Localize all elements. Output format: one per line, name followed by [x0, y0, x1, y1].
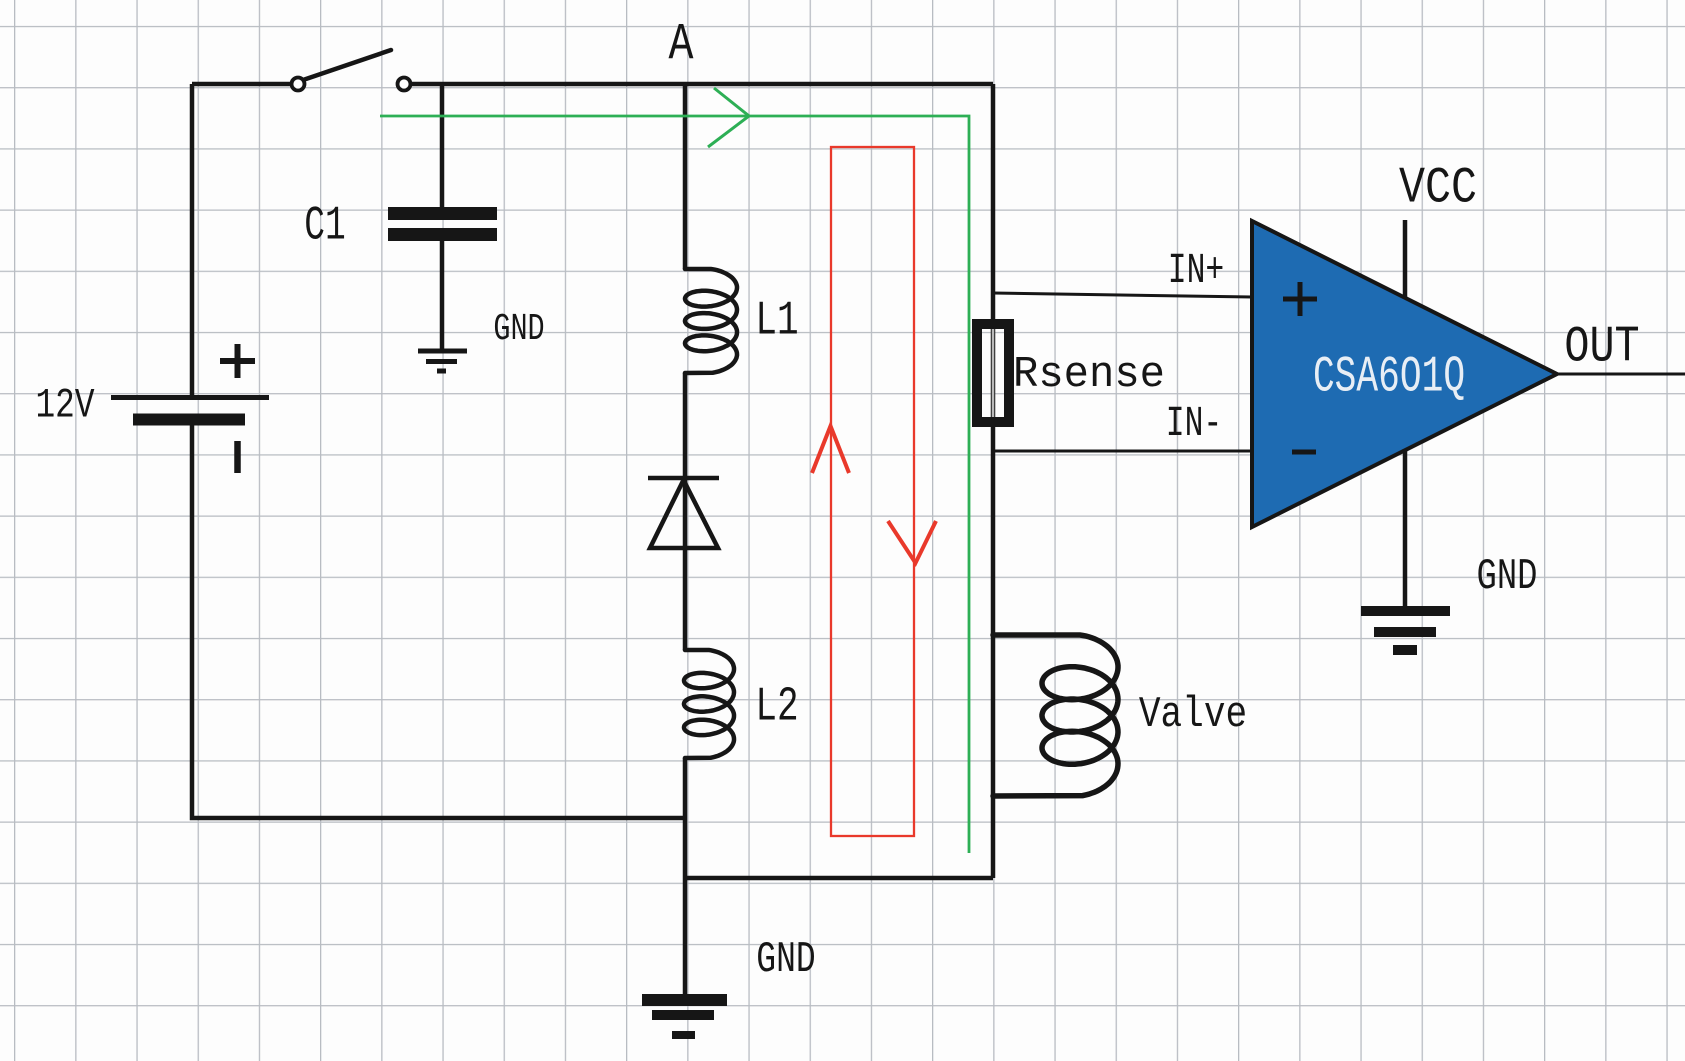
green current path	[380, 116, 969, 853]
svg-text:GND: GND	[493, 309, 544, 352]
wire: left rail (battery branch) down	[190, 84, 195, 395]
diode cathode bar	[648, 476, 719, 481]
svg-text:Valve: Valve	[1139, 691, 1247, 740]
svg-text:VCC: VCC	[1399, 161, 1477, 218]
svg-text:OUT: OUT	[1564, 319, 1639, 377]
wire: bottom rail to right branch	[685, 876, 993, 881]
capacitor C1 top plate	[388, 207, 497, 220]
switch contact right	[398, 78, 411, 91]
battery 12V negative plate	[133, 414, 245, 426]
wire: L2 bottom down to ground	[683, 758, 688, 994]
wire IN+	[993, 293, 1252, 297]
inductor L2	[684, 650, 734, 758]
red arrow up (left edge)	[812, 426, 849, 473]
svg-text:IN+: IN+	[1168, 248, 1224, 296]
wire: C1 bottom to ground	[440, 240, 445, 349]
battery 12V positive plate	[111, 395, 269, 400]
svg-text:12V: 12V	[36, 383, 95, 430]
switch lever	[303, 50, 391, 80]
wire IN-	[993, 450, 1252, 453]
wire: C1 top connection	[440, 84, 445, 207]
VCC pin wire	[1403, 220, 1408, 297]
ground (main, bottom)	[642, 994, 727, 1006]
battery plus sign	[220, 344, 255, 378]
svg-text:Rsense: Rsense	[1013, 349, 1165, 399]
GND pin wire	[1403, 449, 1408, 606]
svg-text:IN-: IN-	[1166, 401, 1222, 449]
wire: top rail from switch to right branch	[411, 82, 994, 87]
wire: right branch vertical	[991, 84, 996, 878]
resistor Rsense body	[977, 324, 1009, 422]
wire: top rail from battery to switch	[192, 82, 292, 87]
svg-text:CSA6O1Q: CSA6O1Q	[1313, 349, 1465, 407]
capacitor C1 bottom plate	[388, 228, 497, 241]
green arrowhead	[708, 88, 749, 147]
wire OUT	[1557, 373, 1685, 376]
svg-text:GND: GND	[1477, 551, 1538, 601]
op-amp plus input mark	[1283, 282, 1317, 316]
wire: L1 bottom to diode	[683, 373, 688, 478]
battery minus sign	[234, 441, 241, 473]
svg-text:GND: GND	[756, 935, 815, 985]
switch contact left	[292, 78, 305, 91]
svg-text:A: A	[669, 16, 695, 75]
op-amp minus input mark	[1292, 450, 1316, 455]
svg-text:L1: L1	[755, 294, 798, 348]
inductor L1	[685, 269, 737, 373]
wire: through diode down to L2	[683, 478, 688, 650]
diode triangle	[650, 480, 718, 548]
Rsense faint through-wire	[992, 327, 995, 420]
wire: middle branch node A down to L1	[683, 84, 688, 269]
red current loop rectangle	[831, 147, 914, 836]
svg-text:L2: L2	[755, 680, 798, 734]
op-amp U1 CSA601Q triangle	[1252, 221, 1557, 527]
inductor Valve	[993, 635, 1118, 796]
red arrow down (right edge)	[888, 521, 936, 563]
ground under op-amp	[1361, 611, 1450, 650]
ground under C1	[418, 351, 467, 371]
wire: battery bottom to lower-left corner	[192, 425, 685, 818]
svg-text:C1: C1	[304, 198, 345, 253]
